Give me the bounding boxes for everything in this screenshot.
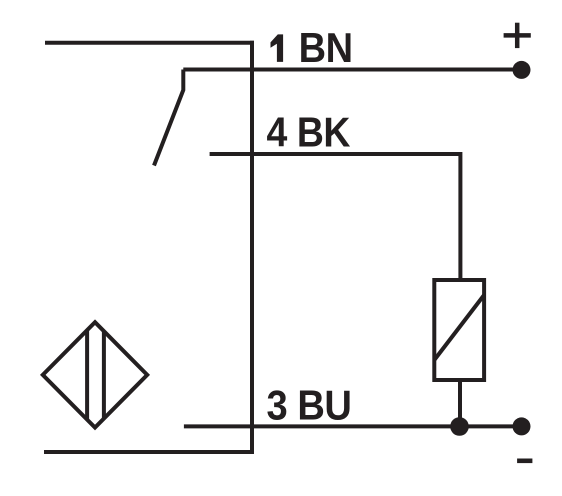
- wire 4 BK: [210, 154, 461, 280]
- label 1 BN: [271, 34, 284, 62]
- wire 1 BN: [183, 68, 521, 72]
- wire: bottom lead: [44, 450, 254, 454]
- wire: vertical bus: [250, 41, 254, 454]
- load L1 (box with diagonal): [434, 280, 484, 380]
- switch contact (NO output): [154, 70, 183, 166]
- minus terminal symbol: [517, 458, 532, 463]
- plus terminal symbol: [504, 33, 531, 38]
- node: + terminal dot: [513, 61, 531, 79]
- wire: load to junction: [458, 380, 462, 427]
- svg-text:BN: BN: [299, 24, 353, 71]
- node: - terminal dot: [513, 417, 531, 435]
- wire: top supply lead: [45, 41, 254, 45]
- node: junction dot: [450, 417, 469, 436]
- wire 3 BU: [184, 424, 522, 428]
- sensor symbol (diamond): [43, 322, 147, 427]
- svg-text:3 BU: 3 BU: [267, 382, 352, 429]
- svg-text:4 BK: 4 BK: [267, 109, 351, 156]
